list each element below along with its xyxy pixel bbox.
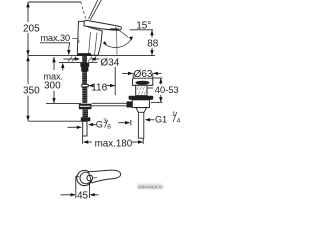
dim 88 up arrow [150, 30, 153, 35]
body top slope line [88, 27, 102, 31]
15 degree reference line [130, 29, 153, 31]
max30 drop line and down arrow [69, 43, 70, 51]
deck counter top line [28, 55, 156, 57]
G38 collar [81, 117, 91, 121]
top view inner circle [87, 175, 93, 181]
top reference line [28, 1, 81, 3]
svg-text:Ø63: Ø63 [134, 69, 153, 80]
drain flange [133, 78, 153, 85]
max180 dim line left arrow [83, 140, 88, 143]
dim 45 left arrow [61, 194, 72, 196]
15 degree slant line [115, 27, 128, 37]
body inner line A [89, 32, 91, 55]
svg-text:350: 350 [23, 85, 40, 96]
dim 40-53 down arrow [159, 97, 162, 102]
dim max300 line [53, 57, 55, 70]
locking band [129, 96, 154, 100]
deck washer [80, 63, 89, 67]
dim max300 bottom reference line [46, 103, 81, 105]
swivel arc arrowhead left [103, 41, 107, 45]
faucet body [77, 21, 102, 55]
svg-text:G1: G1 [155, 114, 167, 124]
dim 40-53 top extension [153, 77, 163, 79]
swivel arc arrowhead right [129, 37, 133, 41]
svg-text:40-53: 40-53 [155, 84, 179, 95]
drain body [132, 100, 149, 108]
dim diam34 right line and arrow [95, 58, 100, 60]
rod clamp tick [130, 120, 132, 125]
dim 88 down arrow [150, 50, 153, 55]
svg-text:G: G [96, 119, 103, 129]
dim 350 line [27, 56, 29, 84]
hose threaded section [82, 87, 87, 103]
watermark [137, 184, 164, 190]
dim 40-53 up arrow [159, 78, 162, 83]
dim diam63 left arrow [122, 72, 128, 74]
deck bottom edge right [89, 61, 98, 63]
max30 below-deck up arrow [62, 67, 64, 71]
deck bottom edge left [59, 61, 82, 63]
dim 205 line [27, 2, 29, 22]
dim 205 up arrow [26, 2, 29, 7]
drain neck [136, 85, 147, 95]
dim 350 up arrow [26, 56, 29, 61]
swivel arc [103, 37, 132, 48]
dim 40-53 bottom extension [151, 101, 163, 103]
dim diam63 extensions [132, 73, 134, 78]
flange bottom line [133, 84, 153, 86]
svg-text:88: 88 [147, 39, 159, 50]
G38 leader arrow [90, 124, 96, 126]
lever tip vertical line [116, 31, 118, 55]
raised lever dashed line [81, 2, 86, 20]
dim 88 line [151, 30, 153, 38]
svg-text:300: 300 [44, 81, 61, 92]
raised lever solid double line [89, 0, 102, 20]
top view blade [89, 170, 121, 183]
top view body circle [77, 170, 92, 185]
dim max300 up arrow [52, 57, 55, 62]
max180 right extension [142, 138, 144, 144]
dim 45 right extension [89, 182, 91, 198]
dim 350 bottom reference line [28, 120, 83, 122]
lever blade side view [84, 20, 121, 30]
pipe left arrow at y127 [68, 126, 78, 128]
svg-text:205: 205 [23, 24, 40, 35]
max180 dim line right arrow [132, 141, 138, 143]
connection nut [79, 104, 92, 110]
svg-text:15°: 15° [136, 20, 151, 31]
svg-text:8: 8 [107, 123, 111, 130]
deck section hatching [68, 57, 96, 62]
body inner line B [95, 33, 98, 56]
pop-up rod tube [92, 102, 128, 104]
hose joint collar [82, 84, 88, 86]
svg-text:Ø34: Ø34 [100, 58, 119, 69]
dim 45 left extension [76, 175, 79, 177]
supply pipe [83, 121, 87, 136]
rod connection nub [127, 101, 133, 107]
hose threaded section 2 [83, 109, 89, 117]
svg-text:45: 45 [77, 191, 89, 201]
dim 205 down arrow [26, 50, 29, 55]
aerator hook [72, 39, 79, 43]
threaded shank [82, 56, 87, 85]
dim 40-53 line [160, 78, 162, 85]
svg-text:4: 4 [177, 118, 181, 125]
G1 1/4 leader [148, 119, 155, 121]
svg-text:onlinetrade.ru: onlinetrade.ru [138, 185, 163, 190]
drain tailpipe [138, 112, 143, 138]
rod clamp leader arrow [118, 122, 126, 124]
dim 116 right arrow [110, 84, 115, 87]
svg-text:116: 116 [91, 83, 107, 94]
basin line right of neck [147, 87, 153, 89]
flange inner dome [136, 81, 150, 85]
body taper [136, 108, 147, 113]
dim 116 extension tick [114, 67, 116, 95]
faucet base plate [77, 53, 92, 56]
svg-text:1: 1 [172, 111, 176, 118]
dim 116 left arrow [88, 84, 93, 87]
dim diam34 left line and arrow [64, 58, 77, 60]
locknut [81, 67, 88, 72]
dim 350 down arrow [26, 116, 29, 121]
dim 116 line [88, 85, 91, 87]
dim diam63 right arrow [157, 72, 161, 74]
max180 left extension [82, 136, 84, 144]
svg-text:max.30: max.30 [41, 33, 71, 43]
svg-text:max.180: max.180 [95, 138, 133, 149]
dim 45 right arrow [94, 194, 99, 196]
dim max300 down arrow [52, 98, 55, 103]
lever tip underside thick [110, 28, 120, 30]
